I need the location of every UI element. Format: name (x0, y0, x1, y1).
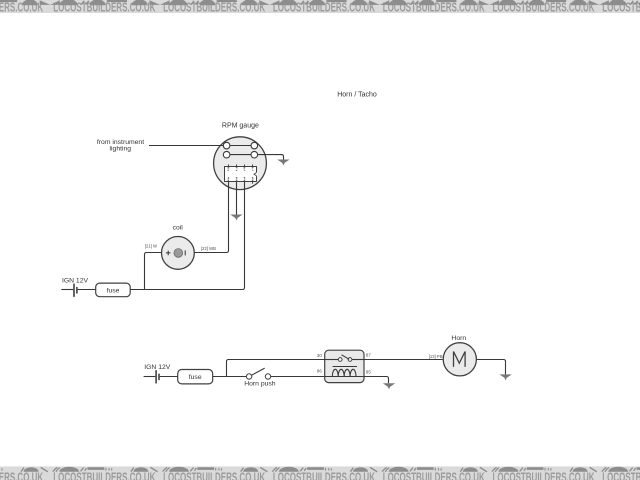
wire instrument lighting to gauge (149, 145, 223, 147)
gauge terminal circle top-right (251, 142, 258, 149)
svg-text:87: 87 (366, 352, 371, 357)
svg-text:[21] W: [21] W (145, 243, 157, 248)
svg-text:[22] WB: [22] WB (201, 246, 216, 251)
horn motor M letter (454, 352, 466, 367)
svg-text:30: 30 (317, 353, 322, 358)
relay coil 86-85 (325, 367, 364, 377)
svg-text:IGN 12V: IGN 12V (62, 278, 89, 285)
svg-text:LOCOSTBUILDERS.CO.UK: LOCOSTBUILDERS.CO.UK (53, 470, 155, 480)
svg-text:Horn / Tacho: Horn / Tacho (337, 92, 377, 99)
wire battery to fuse (tacho) (78, 289, 96, 291)
label from instrument lighting (97, 139, 144, 153)
ground below gauge (230, 215, 242, 221)
svg-text:fuse: fuse (189, 374, 202, 381)
svg-text:Horn push: Horn push (244, 381, 276, 388)
svg-text:Horn: Horn (451, 335, 466, 342)
svg-text:LOCOSTBUILDERS.CO.UK: LOCOSTBUILDERS.CO.UK (602, 470, 640, 480)
wire battery stub (tacho) (61, 289, 73, 291)
RPM gauge body U1 (214, 137, 267, 190)
fuse F2 (horn) (178, 370, 213, 384)
fuse F1 (tacho) (96, 283, 131, 297)
ground horn (499, 374, 511, 380)
svg-text:coil: coil (173, 225, 184, 232)
gauge terminal circle bottom-right (251, 151, 258, 158)
relay contact 30-87 (325, 355, 364, 362)
svg-text:RPM gauge: RPM gauge (222, 122, 259, 129)
horn motor body (443, 343, 476, 376)
wire battery stub (horn) (144, 376, 156, 378)
wire horn push to relay pin 86 (271, 376, 325, 378)
svg-text:[13] PB: [13] PB (429, 354, 443, 359)
wire relay 87 to horn (364, 359, 443, 361)
svg-text:LOCOSTBUILDERS.CO.UK: LOCOSTBUILDERS.CO.UK (273, 470, 375, 480)
wire branch fuse to relay pin 30 (227, 360, 325, 377)
gauge connector pin numbers bottom (228, 177, 254, 180)
svg-text:86: 86 (317, 368, 322, 373)
wire fuse to horn push (213, 376, 247, 378)
coil minus terminal mark (184, 250, 186, 255)
wire gauge pin3 to fuse line (130, 182, 244, 290)
ground right of gauge (277, 160, 289, 166)
gauge terminal circle bottom-left (223, 151, 230, 158)
svg-text:IGN 12V: IGN 12V (144, 364, 171, 371)
coil body (162, 237, 195, 270)
gauge connector pin numbers top (228, 167, 254, 170)
gauge terminal circle top-left (223, 142, 230, 149)
wire relay 85 to ground (364, 377, 389, 384)
wire gauge to right ground (258, 155, 284, 160)
wire horn to ground (476, 360, 505, 375)
svg-text:85: 85 (366, 370, 371, 375)
coil plus terminal mark (166, 251, 171, 256)
gauge illumination terminal link row 1 (230, 145, 251, 147)
relay K1 body (325, 350, 364, 382)
svg-text:lighting: lighting (110, 146, 132, 153)
wire coil to fuse line (145, 253, 162, 290)
gauge connector block (225, 165, 258, 184)
wire gauge pin1 to coil (194, 182, 228, 253)
switch horn push (246, 368, 270, 379)
battery IGN 12V (tacho) (74, 284, 77, 297)
ground relay (383, 383, 395, 389)
coil center dot (174, 249, 183, 258)
svg-text:LOCOSTBUILDERS.CO.UK: LOCOSTBUILDERS.CO.UK (493, 470, 595, 480)
wire gauge pin2 to ground (236, 182, 238, 215)
svg-text:LOCOSTBUILDERS.CO.UK: LOCOSTBUILDERS.CO.UK (383, 470, 485, 480)
svg-text:LOCOSTBUILDERS.CO.UK: LOCOSTBUILDERS.CO.UK (163, 470, 265, 480)
wire battery to fuse (horn) (160, 376, 178, 378)
gauge illumination terminal link row 2 (230, 154, 251, 156)
battery IGN 12V (horn) (156, 370, 159, 383)
svg-text:fuse: fuse (107, 287, 120, 294)
